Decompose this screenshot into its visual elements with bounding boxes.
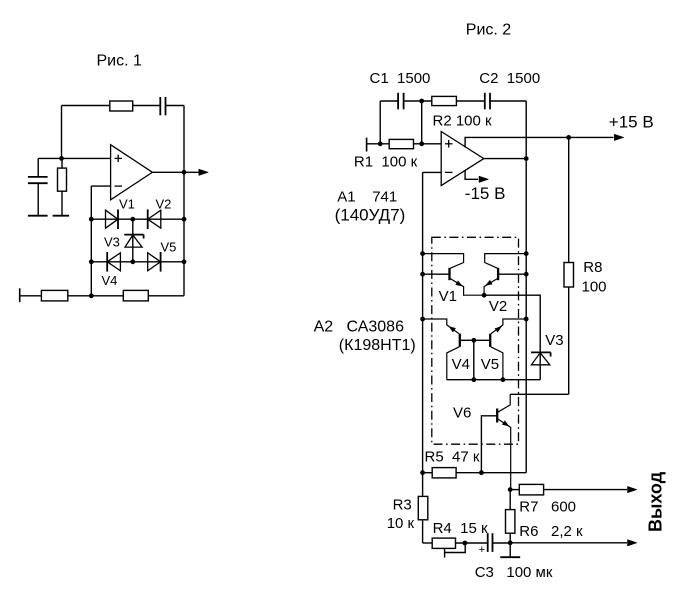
label V2 fig1 (156, 197, 172, 212)
label R8 value (582, 279, 607, 296)
wire V4 emitter (423, 319, 460, 334)
input terminal fig1 (19, 288, 21, 302)
ground bar under capacitor (28, 215, 48, 217)
node base junction V4 V5 (471, 338, 476, 343)
label A2 CA3086 (314, 318, 404, 335)
wire C2 to right vertical (490, 100, 526, 102)
resistor R bottom-right fig1 (123, 290, 148, 301)
wire capacitor to right vertical (166, 105, 185, 107)
wire V4 base (460, 339, 474, 341)
label R3 (393, 497, 412, 514)
wire C3 to node (493, 542, 511, 544)
svg-text:-15 В: -15 В (465, 184, 506, 203)
output arrow fig1 (199, 169, 209, 175)
node V5 emitter junction (524, 317, 529, 322)
svg-text:V2: V2 (489, 298, 507, 315)
wire feedback vertical (422, 172, 424, 472)
wire R5 right (456, 472, 526, 474)
label K198NT1 (339, 337, 416, 354)
resistor R6 (506, 490, 515, 543)
svg-text:R5 47 к: R5 47 к (425, 448, 480, 465)
label A1 741 (337, 189, 397, 206)
label V3 fig1 (104, 234, 120, 249)
node output junction (524, 156, 529, 161)
wire right vertical (183, 106, 185, 296)
svg-text:V6: V6 (453, 405, 471, 422)
wire inverting input stub (423, 171, 442, 173)
node row2 middle (130, 259, 135, 264)
resistor R1 (389, 139, 413, 148)
wire resistor to capacitor (133, 105, 161, 107)
wire left bridge vertical (90, 186, 92, 296)
label C3 value (475, 564, 553, 581)
node V1 collector junction (420, 251, 425, 256)
label V5 fig1 (161, 240, 177, 255)
svg-text:R8: R8 (583, 259, 602, 276)
svg-text:Рис. 2: Рис. 2 (466, 22, 512, 39)
transistor V1 (450, 268, 485, 295)
svg-text:C1 1500: C1 1500 (370, 70, 431, 87)
svg-text:V3: V3 (545, 332, 563, 349)
diode V1 fig1 (106, 209, 119, 229)
wire top-left vertical (61, 106, 63, 159)
wire V2 collector (485, 254, 527, 269)
label C1 1500 (370, 70, 431, 87)
label V3 fig2 (545, 332, 563, 349)
transistor V6 (497, 394, 511, 489)
capacitor C3 (479, 533, 493, 556)
resistor R input fig1 (58, 158, 67, 215)
IC A2 dash-dot box (432, 237, 519, 444)
wire bottom middle (68, 295, 124, 297)
wire top left (380, 100, 398, 102)
node V2 collector junction (524, 251, 529, 256)
label +15 V (609, 113, 654, 132)
transistor V2 (484, 268, 498, 295)
svg-text:V5: V5 (481, 356, 499, 373)
node V2 base junction (524, 272, 529, 277)
wire op-amp output (152, 171, 199, 173)
wire emitters to V3 (484, 295, 540, 352)
svg-text:(К198НТ1): (К198НТ1) (339, 337, 416, 354)
resistor R3 (418, 473, 428, 543)
svg-text:Выход: Выход (646, 471, 666, 532)
node V4 emitter junction (420, 317, 425, 322)
svg-text:R7 600: R7 600 (519, 499, 576, 516)
node R7 junction (508, 487, 513, 492)
wire -15V stub (465, 170, 478, 179)
label V2 fig2 (489, 298, 507, 315)
node input junction (378, 141, 383, 146)
label V1 fig2 (439, 288, 457, 305)
wire R2 to C2 (456, 100, 484, 102)
wire R3 to R4 (423, 542, 433, 544)
svg-text:А1 741: А1 741 (337, 189, 397, 206)
node row1 middle (130, 217, 135, 222)
capacitor C input fig1 (28, 158, 48, 215)
node row1 left (89, 217, 94, 222)
node junction + input (59, 156, 64, 161)
resistor R4 trimmer (432, 538, 465, 558)
wire middle vertical (132, 219, 134, 262)
wire C1 junction vertical (421, 101, 423, 144)
node R5 left junction (420, 470, 425, 475)
node row1 right (182, 217, 187, 222)
label -15 V (465, 184, 506, 203)
zener diode V3 fig2 (531, 352, 551, 379)
svg-text:V4: V4 (102, 273, 118, 288)
wire R1 to op-amp (414, 143, 442, 145)
svg-text:R1 100 к: R1 100 к (354, 153, 418, 170)
ground bar under resistor (53, 215, 70, 217)
wire right vertical fig2 (525, 101, 527, 473)
capacitor C2 (485, 93, 490, 110)
svg-text:Рис. 1: Рис. 1 (97, 53, 143, 70)
svg-text:V1: V1 (439, 288, 457, 305)
svg-text:V5: V5 (161, 240, 177, 255)
arrow -15V (479, 176, 489, 182)
wire R7 left (510, 489, 519, 491)
arrow output bottom (628, 540, 638, 546)
resistor R8 (564, 137, 574, 394)
svg-text:V4: V4 (452, 356, 470, 373)
ground fig2 (500, 543, 520, 557)
label R3 value (387, 515, 415, 532)
svg-text:R2 100 к: R2 100 к (433, 112, 493, 129)
svg-text:R3: R3 (393, 497, 412, 514)
node emitter junction V1 V2 (482, 293, 487, 298)
svg-text:C2 1500: C2 1500 (479, 70, 540, 87)
wire bottom input (20, 295, 42, 297)
wire R5 left (423, 472, 433, 474)
label V5 fig2 (481, 356, 499, 373)
node top junction (419, 99, 424, 104)
node V1 base junction (420, 272, 425, 277)
resistor R7 (519, 484, 543, 495)
label R5 47 k (425, 448, 480, 465)
svg-text:R4 15 к: R4 15 к (433, 520, 488, 537)
svg-text:(140УД7): (140УД7) (335, 206, 406, 225)
wire base to collector tie (473, 340, 475, 379)
node V6 base tie junction (479, 470, 484, 475)
svg-text:100: 100 (582, 279, 607, 296)
transistor V5 (490, 319, 526, 380)
label R6 2,2 k (519, 523, 583, 540)
label R4 15 k (433, 520, 488, 537)
wire output bottom (510, 542, 627, 544)
svg-text:+15 В: +15 В (609, 113, 654, 132)
svg-text:10 к: 10 к (387, 515, 415, 532)
wire op-amp output (484, 158, 526, 160)
wire top feedback left (62, 105, 110, 107)
transistor V4 (447, 334, 460, 380)
label C2 1500 (479, 70, 540, 87)
label V4 fig1 (102, 273, 118, 288)
wire V1 collector (423, 254, 464, 269)
resistor R bottom-left fig1 (41, 290, 67, 301)
node output bottom junction (508, 540, 513, 545)
label V4 fig2 (452, 356, 470, 373)
label V1 fig1 (119, 197, 135, 212)
op-amp A1 (441, 132, 484, 186)
diode V2 fig1 (148, 209, 161, 229)
wire V2 base (498, 273, 526, 275)
capacitor C1 (398, 93, 404, 110)
wire diode row 2 (91, 261, 184, 263)
svg-text:V1: V1 (119, 197, 135, 212)
node bottom junction (89, 293, 94, 298)
node R4 C3 junction (463, 541, 468, 546)
wire V6 collector to R8 (510, 393, 569, 395)
arrow output top (628, 486, 638, 492)
node output junction (182, 170, 187, 175)
figure 2 caption (466, 22, 512, 39)
node row2 right (182, 259, 187, 264)
capacitor C fig1 feedback (160, 97, 165, 115)
arrow +15V (614, 134, 624, 140)
diode V4 fig1 (107, 252, 120, 272)
node row2 left (89, 259, 94, 264)
wire V1 base (423, 273, 450, 275)
wire input to R1 (367, 143, 390, 145)
wire diode row 1 (91, 218, 184, 220)
wire inverting input (91, 185, 110, 187)
node R1 junction (419, 141, 424, 146)
node +15V R8 junction (566, 135, 571, 140)
svg-text:C3 100 мк: C3 100 мк (475, 564, 553, 581)
node V5 collector junction (501, 377, 506, 382)
label 140UD7 (335, 206, 406, 225)
wire bottom right (148, 295, 184, 297)
label R1 100 k (354, 153, 418, 170)
wire V6 base (481, 416, 497, 473)
label Vykhod output (646, 471, 666, 532)
wire C1 to R2 (404, 100, 432, 102)
input terminal fig2 (366, 138, 368, 152)
svg-text:+: + (479, 544, 485, 556)
svg-text:V3: V3 (104, 234, 120, 249)
resistor R5 (432, 468, 456, 478)
wire V5 base (474, 339, 490, 341)
diode V5 fig1 (148, 252, 161, 272)
figure 1 caption (97, 53, 143, 70)
zener diode V3 fig1 (124, 235, 143, 248)
wire R4 to C3 (456, 542, 488, 544)
resistor R2 (432, 96, 457, 105)
svg-text:V2: V2 (156, 197, 172, 212)
label V6 fig2 (453, 405, 471, 422)
op-amp A fig1 (111, 145, 153, 200)
svg-text:R6 2,2 к: R6 2,2 к (519, 523, 583, 540)
wire noninverting input (38, 157, 110, 159)
wire V4 V5 collectors (447, 379, 540, 381)
label R8 (583, 259, 602, 276)
label R7 600 (519, 499, 576, 516)
wire +15V stub (465, 137, 613, 147)
node collector tie junction (471, 377, 476, 382)
wire left vertical fig2 (379, 101, 381, 144)
svg-text:А2 СА3086: А2 СА3086 (314, 318, 404, 335)
wire R7 to output (544, 489, 627, 491)
resistor R fig1 feedback (110, 101, 133, 111)
label R2 100 k (433, 112, 493, 129)
